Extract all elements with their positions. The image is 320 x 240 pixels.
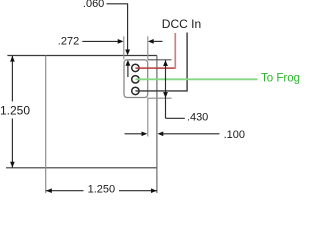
wire red DCC vertical: [174, 33, 176, 69]
dimension .060 label and leader: [83, 0, 130, 77]
terminal 2 (middle): [132, 76, 139, 83]
svg-text:.060: .060: [83, 0, 104, 10]
svg-text:1.250: 1.250: [88, 183, 116, 195]
dimension .430: [148, 60, 209, 124]
svg-text:1.250: 1.250: [0, 104, 30, 118]
wire black DCC: [135, 33, 187, 91]
PCB outline square 1.250 x 1.250: [6, 56, 157, 194]
wire red DCC horizontal: [135, 67, 175, 69]
terminal 3 (bottom): [132, 87, 139, 94]
dimension 1.250 left: [0, 56, 30, 168]
svg-text:.430: .430: [187, 112, 208, 124]
svg-text:.100: .100: [224, 129, 245, 141]
dimension 1.250 bottom: [46, 183, 157, 195]
svg-text:.272: .272: [58, 35, 79, 47]
dimension .100: [125, 98, 246, 142]
terminal 1 (top): [132, 64, 139, 71]
svg-text:To Frog: To Frog: [261, 72, 300, 84]
svg-text:DCC In: DCC In: [162, 17, 201, 31]
wire green to frog: [135, 78, 257, 80]
terminal block: [124, 60, 148, 98]
dimension .272: [58, 35, 163, 59]
